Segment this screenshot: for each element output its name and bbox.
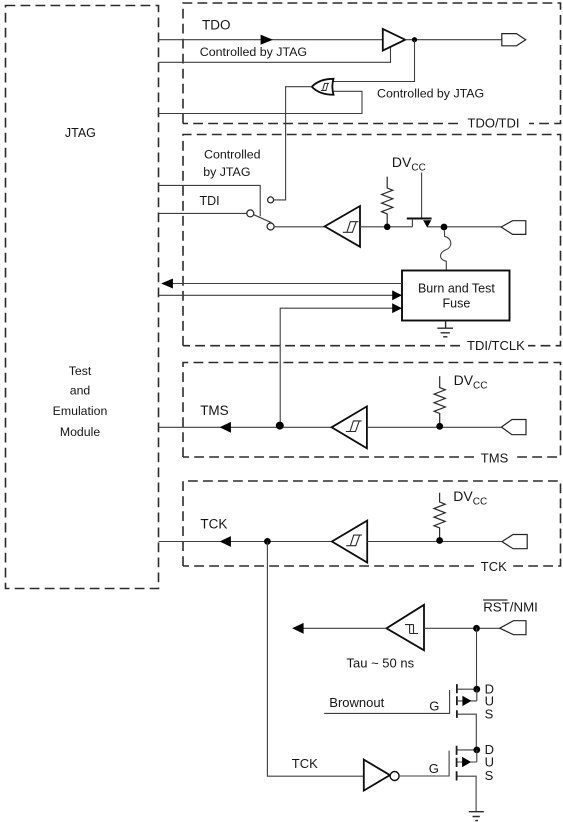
pad TMS pin	[501, 420, 526, 435]
svg-text:Controlled by JTAG: Controlled by JTAG	[200, 45, 307, 59]
transistor Q2 bulk tie to drain	[458, 689, 477, 701]
transistor Q3 source wire down to ground	[458, 776, 477, 812]
svg-text:TMS: TMS	[200, 403, 229, 418]
node junction dot R2 bottom	[436, 423, 443, 430]
fuse wavy line to burn box	[441, 231, 451, 271]
svg-text:S: S	[485, 706, 494, 721]
svg-text:Test: Test	[69, 364, 92, 378]
node junction dot TMS riser	[276, 422, 284, 430]
op-amp U5 TCK schmitt buffer	[332, 521, 367, 563]
transistor Q2 channel segments	[456, 684, 458, 718]
op-amp U3 TDI schmitt input buffer (left-pointing)	[325, 206, 360, 247]
wire brownout gate lead	[324, 690, 449, 713]
wire common contact to schmitt buffer	[274, 226, 325, 228]
arrow left at U6 output	[292, 623, 304, 634]
hysteresis glyph in gate	[321, 83, 329, 90]
SECTION2	[159, 372, 526, 448]
SECTION4	[267, 542, 537, 821]
hysteresis glyph in U3	[343, 222, 359, 233]
transistor Q1 drain arrow down to pin wire	[424, 221, 431, 227]
ground below fuse box	[437, 321, 453, 337]
node junction dot at buffer output	[412, 37, 417, 42]
resistor R3 pullup to DVCC	[434, 493, 445, 538]
transistor Q3 channel segments	[456, 746, 458, 781]
svg-text:TDO: TDO	[202, 18, 231, 33]
switch S1 contact circle top (from JTAG gate)	[268, 197, 274, 203]
svg-text:G: G	[429, 761, 439, 776]
svg-text:Tau ~ 50 ns: Tau ~ 50 ns	[347, 656, 415, 671]
svg-text:Burn and Test: Burn and Test	[418, 282, 495, 296]
switch S1 common contact circle	[267, 223, 274, 230]
svg-text:TCK: TCK	[292, 756, 318, 771]
transistor Q2 bulk arrow	[462, 696, 471, 706]
arrow right into fuse box (input2)	[392, 303, 402, 313]
wire RST junction down to Q2 drain	[476, 628, 478, 689]
wire TCK from module to schmitt buffer	[159, 541, 332, 543]
op-amp U1 TDO output buffer	[383, 29, 405, 51]
node junction dot R3 bottom	[436, 537, 443, 544]
transistor Q1 clamp to DVCC: gate lead	[421, 173, 423, 218]
arrow left at module (fuse output)	[161, 279, 173, 289]
node junction dot RST	[473, 625, 480, 632]
svg-text:and: and	[70, 384, 91, 398]
pad TDI/TCLK pin	[501, 221, 526, 235]
TDO/TDI section dashed box	[183, 3, 561, 124]
resistor R1 pullup to DVCC	[382, 177, 393, 224]
switch S1 contact circle TDI	[247, 210, 254, 217]
JTAG test/emulation module dashed box	[6, 6, 159, 589]
hysteresis glyph in U4	[346, 421, 362, 432]
gate U2 left-facing OR with hysteresis	[312, 79, 334, 95]
svg-text:TDO/TDI: TDO/TDI	[468, 116, 520, 131]
pulse glyph in U6	[405, 625, 418, 634]
wire alternate path from module over TDI label down to switch blade	[159, 185, 261, 216]
wire buffer to pad	[367, 426, 502, 428]
svg-text:JTAG: JTAG	[65, 126, 96, 140]
transistor Q2 source wire down to Q3	[458, 714, 477, 750]
svg-text:by JTAG: by JTAG	[203, 165, 250, 179]
transistor Q1 source leg	[411, 219, 413, 227]
svg-text:RST/NMI: RST/NMI	[483, 599, 538, 614]
TCK section dashed box	[183, 481, 561, 566]
node junction dot Q2 drain	[473, 686, 480, 693]
wire TDO from module to output buffer	[159, 39, 383, 41]
arrow left on TMS wire	[220, 422, 231, 433]
svg-text:Controlled by JTAG: Controlled by JTAG	[377, 87, 484, 101]
wire TMS from module to schmitt buffer	[159, 426, 332, 428]
SECTION1	[159, 147, 526, 425]
inverter U7 bubble	[390, 772, 399, 781]
wire feedback from junction down to gate top input	[333, 40, 414, 82]
hysteresis glyph in U5	[346, 535, 362, 546]
wire gate bottom input loop to module	[159, 91, 362, 113]
svg-text:Module: Module	[60, 425, 100, 439]
op-amp U4 TMS schmitt buffer	[332, 406, 367, 448]
arrow right on TDO wire	[261, 35, 273, 45]
wire buffer output to pad	[405, 39, 502, 41]
wire fuse box output to module with left arrow	[172, 283, 402, 285]
pad TDO/TDI pin	[502, 34, 526, 46]
transistor Q3 bulk arrow	[462, 757, 471, 767]
svg-text:Brownout: Brownout	[329, 695, 384, 710]
wire TDI from module to switch contact	[159, 212, 247, 214]
svg-text:Emulation: Emulation	[53, 404, 108, 418]
wire U6 output to left with arrow	[302, 627, 386, 629]
wire enable from module into buffer bottom	[159, 47, 391, 63]
TMS section dashed box	[183, 363, 561, 458]
resistor R2 pullup to DVCC	[434, 376, 445, 423]
svg-text:TCK: TCK	[481, 559, 507, 574]
svg-text:TCK: TCK	[200, 517, 227, 532]
svg-text:Fuse: Fuse	[443, 297, 471, 311]
arrow right into fuse box (input1)	[392, 290, 402, 300]
svg-text:S: S	[485, 768, 494, 783]
wire U6 input from junction	[424, 627, 500, 629]
svg-text:TDI: TDI	[200, 194, 220, 208]
box Burn and Test Fuse	[402, 271, 510, 321]
wire buffer to pad main line	[360, 226, 501, 228]
svg-text:TDI/TCLK: TDI/TCLK	[467, 338, 525, 353]
arrow left on TCK wire	[220, 536, 231, 547]
node junction dot fuse tap	[441, 224, 448, 231]
TDI/TCLK section dashed box	[183, 135, 561, 346]
node junction dot TCK riser	[264, 538, 271, 545]
transistor Q1 channel bar	[407, 218, 432, 220]
wire gate output down to switch top contact	[274, 87, 312, 200]
ground below Q3	[469, 812, 484, 821]
transistor Q3 drain wire	[458, 749, 477, 751]
svg-text:TMS: TMS	[481, 450, 509, 465]
wire module to fuse box input1	[159, 294, 393, 296]
wire inverter output to Q3 gate	[399, 751, 449, 776]
wire long riser TCK junction down to inverter input	[267, 542, 363, 777]
transistor Q2 drain wire	[458, 688, 477, 690]
switch S1 blade	[254, 215, 272, 223]
inverter U7 triangle	[364, 760, 390, 791]
transistor Q3 bulk tie to drain	[458, 750, 477, 762]
label RST overline	[483, 599, 507, 601]
node junction dot resistor R1 bottom	[384, 224, 391, 231]
wire TMS tap riser to fuse box input2	[280, 308, 393, 425]
node junction dot Q3 drain	[473, 747, 480, 754]
op-amp U6 reset pulse buffer (left-pointing)	[386, 605, 424, 651]
SECTION3	[159, 488, 528, 562]
pad TCK pin	[502, 535, 527, 549]
svg-text:Controlled: Controlled	[204, 147, 261, 161]
svg-text:G: G	[429, 698, 439, 713]
pad RST/NMI pin	[500, 621, 526, 635]
wire buffer to pad	[367, 541, 502, 543]
